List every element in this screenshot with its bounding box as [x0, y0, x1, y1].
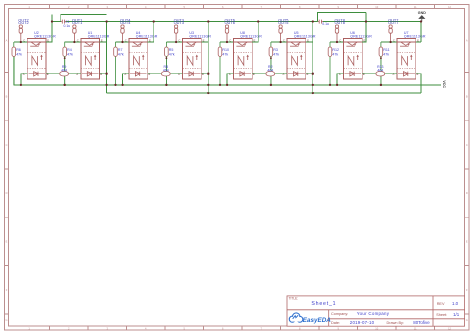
bottom bus 2: [107, 92, 421, 94]
svg-text:C: C: [178, 39, 180, 43]
junction mid drop bus: [380, 84, 382, 86]
wire C net: [220, 41, 234, 43]
svg-text:2019-07-10: 2019-07-10: [350, 320, 375, 325]
wire emitter riser: [46, 15, 52, 42]
svg-text:VCC: VCC: [442, 80, 446, 88]
wire C net: [381, 41, 397, 43]
svg-text:Sheet:: Sheet:: [436, 313, 447, 317]
resistor R12 47k: [328, 42, 332, 85]
wire cathode to series resistor: [148, 73, 162, 75]
svg-text:A: A: [6, 39, 8, 43]
wire anode from series resistor: [170, 73, 182, 75]
junction anode wire bus: [226, 84, 228, 86]
wire cathode to series resistor: [252, 73, 266, 75]
svg-text:Sheet_1: Sheet_1: [311, 301, 336, 307]
svg-text:1.0: 1.0: [452, 301, 459, 306]
junction pin to C wire: [226, 41, 228, 43]
svg-text:0.1u: 0.1u: [64, 24, 71, 28]
junction riser bus: [257, 20, 259, 22]
svg-text:OUT4: OUT4: [120, 20, 131, 25]
svg-text:QRE1113GR: QRE1113GR: [136, 35, 158, 39]
junction resistor to bus: [270, 84, 272, 86]
capacitor C1 0.1u: [62, 20, 64, 24]
series resistor R9 464: [64, 56, 66, 85]
bypass loop pair4: [318, 12, 367, 21]
wire emitter riser: [252, 22, 258, 43]
opto sensor U6 body: [344, 39, 363, 79]
wire emitter riser: [148, 22, 154, 43]
capacitor C1 labels: [61, 21, 63, 23]
junction resistor to bus: [165, 84, 167, 86]
svg-text:C: C: [339, 39, 341, 43]
junctions long vertical: [105, 20, 107, 22]
junction pin to C wire: [121, 41, 123, 43]
series resistor R2 464: [270, 56, 272, 85]
junction pin to C wire: [389, 41, 391, 43]
bypass loop pair1: [61, 15, 107, 22]
junction pin to C wire: [336, 41, 338, 43]
wire LED anode to bus: [227, 74, 233, 85]
capacitor C2 labels: [318, 21, 320, 23]
svg-text:OUT6: OUT6: [225, 20, 235, 25]
wire emitter to GND riser: [416, 41, 421, 43]
title block frame: [287, 296, 465, 327]
connector pin OUT1: [73, 25, 76, 42]
opto sensor U7 body: [397, 39, 416, 79]
svg-text:464: 464: [163, 68, 169, 72]
svg-text:EasyEDA: EasyEDA: [303, 317, 331, 324]
junction anode wire bus: [121, 84, 123, 86]
svg-text:B: B: [6, 95, 8, 99]
series resistor R13 464: [380, 56, 382, 85]
junction mid drop bus: [270, 84, 272, 86]
junctions long vertical: [312, 20, 314, 22]
junction pin to C wire: [20, 41, 22, 43]
wire LED anode to bus: [21, 74, 27, 85]
svg-text:80Tofive: 80Tofive: [413, 320, 430, 325]
svg-text:464: 464: [61, 68, 67, 72]
wire cathode to series resistor: [362, 73, 376, 75]
EasyEDA logo: [289, 313, 331, 324]
junction resistor to bus: [329, 84, 331, 86]
resistor R3 47k: [269, 42, 273, 85]
junction pin to C wire: [73, 41, 75, 43]
junction riser bus: [153, 20, 155, 22]
junction anode wire bus: [20, 84, 22, 86]
svg-text:C: C: [77, 39, 79, 43]
junction resistor to bus: [64, 84, 66, 86]
junctions long vertical: [207, 20, 209, 22]
svg-text:B: B: [466, 95, 468, 99]
svg-text:C: C: [229, 39, 231, 43]
svg-text:Your Company: Your Company: [357, 311, 390, 316]
wire LED anode to bus: [123, 74, 129, 85]
svg-text:QRE1113GR: QRE1113GR: [34, 35, 56, 39]
opto sensor U2 body: [27, 39, 46, 79]
svg-text:D: D: [6, 191, 8, 195]
svg-text:QRE1113GR: QRE1113GR: [350, 35, 372, 39]
wire emitter to long vertical: [306, 41, 313, 43]
svg-text:1/1: 1/1: [453, 312, 460, 317]
junction resistor to bus: [380, 84, 382, 86]
connector pin OUT2: [19, 25, 22, 42]
svg-text:OUT5: OUT5: [278, 20, 288, 25]
wire emitter to long vertical: [201, 41, 208, 43]
svg-text:47k: 47k: [332, 52, 338, 56]
svg-text:C: C: [283, 39, 285, 43]
svg-text:47k: 47k: [169, 52, 175, 56]
wire cathode to long vertical: [100, 73, 107, 75]
opto sensor U5 body: [287, 39, 306, 79]
connector pin OUT5: [279, 25, 282, 42]
svg-text:REV: REV: [437, 302, 445, 306]
wire anode from series resistor: [69, 73, 81, 75]
power flag GND: [418, 11, 426, 22]
junction pin to C wire: [175, 41, 177, 43]
wire LED anode to bus: [337, 74, 343, 85]
svg-text:OUT2: OUT2: [18, 20, 28, 25]
svg-text:OUT1: OUT1: [72, 20, 82, 25]
junction mid drop bus: [64, 84, 66, 86]
junction resistor to bus: [219, 84, 221, 86]
wire emitter to long vertical: [100, 41, 107, 43]
wire cathode to long vertical: [201, 73, 208, 75]
opto sensor U4 body: [129, 39, 148, 79]
wire cathode to long vertical: [306, 73, 313, 75]
svg-text:G: G: [5, 318, 7, 322]
connector pin OUT4: [121, 25, 124, 42]
svg-text:47k: 47k: [222, 52, 228, 56]
svg-text:C: C: [393, 39, 395, 43]
junction anode wire bus: [336, 84, 338, 86]
bottom bus 1: [14, 56, 441, 85]
svg-text:OUT8: OUT8: [335, 20, 345, 25]
svg-text:Drawn By:: Drawn By:: [387, 321, 405, 325]
wire cathode to series resistor: [46, 73, 60, 75]
wire C net: [14, 41, 27, 43]
resistor R7 47k: [114, 42, 118, 85]
svg-text:OUT3: OUT3: [174, 20, 184, 25]
junction pin to C wire: [279, 41, 281, 43]
svg-text:47k: 47k: [273, 52, 279, 56]
svg-text:C: C: [6, 143, 8, 147]
wire anode from series resistor: [385, 73, 397, 75]
wire C net: [65, 41, 81, 43]
resistor R5 47k: [165, 42, 169, 85]
svg-text:G: G: [466, 318, 468, 322]
svg-text:C: C: [125, 39, 127, 43]
resistor R6 47k: [12, 42, 16, 85]
opto sensor U3 body: [183, 39, 202, 79]
svg-text:C: C: [466, 143, 468, 147]
svg-text:0.1u: 0.1u: [322, 22, 329, 26]
resistor R11 47k: [379, 42, 383, 85]
svg-text:A: A: [466, 39, 468, 43]
svg-text:QRE1113GR: QRE1113GR: [240, 35, 262, 39]
svg-text:QRE1113GR: QRE1113GR: [404, 35, 426, 39]
capacitor C2 0.1u: [319, 20, 321, 24]
svg-text:E: E: [466, 239, 468, 243]
wire C net: [271, 41, 287, 43]
junction riser bus: [51, 20, 53, 22]
wire C net: [166, 41, 182, 43]
wire cathode down to bus2: [416, 74, 421, 93]
wire emitter riser: [362, 12, 366, 42]
svg-text:464: 464: [267, 68, 273, 72]
wire anode from series resistor: [275, 73, 287, 75]
long vertical wire: [106, 22, 108, 94]
svg-text:OUT7: OUT7: [388, 20, 398, 25]
top bus wire VCC/net: [52, 21, 61, 23]
series resistor R8 464: [165, 56, 167, 85]
connector pin OUT6: [225, 25, 228, 42]
resistor R4 47k: [63, 42, 67, 85]
svg-text:TITLE:: TITLE:: [289, 296, 299, 300]
connector pin OUT8: [335, 25, 338, 42]
svg-text:47k: 47k: [118, 52, 124, 56]
opto sensor U1 body: [81, 39, 100, 79]
svg-text:E: E: [6, 239, 8, 243]
connector pin OUT3: [174, 25, 177, 42]
wire C net: [116, 41, 130, 43]
svg-text:Company:: Company:: [331, 312, 348, 316]
long vertical wire: [207, 22, 209, 94]
junction resistor to bus: [114, 84, 116, 86]
svg-text:Date:: Date:: [331, 321, 340, 325]
wire C net: [330, 41, 344, 43]
junction GND bus: [420, 20, 422, 22]
svg-text:D: D: [466, 191, 468, 195]
svg-text:47k: 47k: [383, 52, 389, 56]
junction mid drop bus: [165, 84, 167, 86]
svg-text:C: C: [23, 39, 25, 43]
long vertical wire: [312, 22, 314, 94]
resistor R10 47k: [218, 42, 222, 85]
connector pin OUT7: [389, 25, 392, 42]
junction riser bus: [365, 20, 367, 22]
svg-text:47k: 47k: [67, 52, 73, 56]
opto sensor U8 body: [234, 39, 253, 79]
svg-text:47k: 47k: [16, 52, 22, 56]
junctions bottom buses: [207, 92, 209, 94]
svg-text:GND: GND: [418, 11, 426, 15]
svg-text:464: 464: [377, 68, 383, 72]
